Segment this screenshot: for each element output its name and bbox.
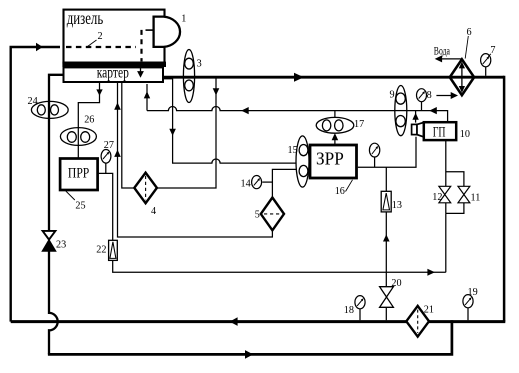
- karter (crankcase) box: [64, 65, 164, 82]
- wire bottom return line: [11, 320, 506, 323]
- label 6 with leader: [465, 27, 471, 59]
- pump/sensor 17 above ZRR: [316, 117, 354, 133]
- wire PRR out to gauge 27 junction and down: [98, 173, 113, 240]
- wire collector riser to valves bottom bar: [445, 213, 447, 272]
- gauge 18: [355, 296, 365, 309]
- svg-text:дизель: дизель: [67, 8, 104, 28]
- gauge 14: [252, 176, 262, 189]
- label 2 with leader: [88, 31, 103, 47]
- MAIN THICK LINES: [11, 47, 506, 354]
- PRR box 25: [60, 159, 98, 191]
- arrow up on GP connector stub: [412, 113, 418, 120]
- svg-text:21: 21: [424, 304, 434, 315]
- arrow down on line x216: [213, 88, 220, 95]
- THIN WIRES: [78, 66, 485, 320]
- svg-text:2: 2: [98, 31, 103, 42]
- svg-text:22: 22: [96, 244, 106, 255]
- svg-text:20: 20: [391, 278, 401, 289]
- wire diamond 5 top to ZRR lower input: [272, 169, 297, 197]
- arrow up (upper) on line x117: [114, 102, 121, 109]
- label 16 with leader: [335, 180, 353, 197]
- wire gauge 27 stem: [105, 161, 107, 173]
- gauge 8: [417, 89, 427, 102]
- arrow down inside karter (dashed oil path): [137, 67, 144, 78]
- arrow left on GP return near GP: [429, 107, 437, 114]
- arrow down on karter-PRR drain: [96, 89, 102, 95]
- wire right border down: [503, 76, 506, 322]
- wire gauge 19 stem: [467, 307, 469, 320]
- wire ZRR top to ellipse 17 stub: [334, 140, 336, 146]
- svg-text:19: 19: [468, 287, 478, 298]
- arrow into diesel left: [36, 43, 43, 52]
- wire ellipse 17 stub to return line: [334, 111, 336, 118]
- wire pump 26 to PRR box: [77, 143, 79, 158]
- svg-text:ПРР: ПРР: [68, 166, 89, 182]
- arrow right on bottom second line: [245, 350, 253, 359]
- svg-text:14: 14: [241, 179, 251, 190]
- svg-text:11: 11: [471, 193, 481, 204]
- svg-text:24: 24: [28, 96, 38, 107]
- wire ZRR output line to GP connector: [358, 137, 416, 167]
- dashed oil line 2 inside diesel: [66, 30, 154, 62]
- filter 22: [109, 240, 118, 260]
- label 25 with leader: [66, 191, 86, 212]
- pump/sensor 9 on GP return line: [395, 86, 407, 136]
- svg-text:7: 7: [490, 45, 495, 56]
- arrow up into ellipse 17: [332, 133, 339, 140]
- filter 13: [381, 191, 391, 212]
- wire top line drop at 216 to diamond 4: [122, 78, 216, 188]
- arrow right on bottom collector: [427, 269, 435, 276]
- wire GP connector up stub: [415, 111, 417, 123]
- wire gauge (unlabeled) stem: [374, 157, 376, 167]
- wire filter 13 bottom to collector: [385, 212, 387, 272]
- arrow up into karter on return riser: [144, 91, 150, 98]
- svg-text:3: 3: [197, 58, 202, 69]
- wire filter 22 down and long bottom collector: [113, 260, 446, 272]
- gauge 7: [481, 54, 491, 67]
- wire gauge 7 stem: [485, 66, 487, 76]
- cooler diamond 6: [450, 59, 474, 95]
- valve 12: [439, 186, 451, 203]
- svg-text:6: 6: [467, 27, 472, 38]
- arrow left on bottom return line: [230, 317, 238, 326]
- wire main top line karter to cooler to right border: [162, 76, 504, 79]
- arrow up (lower) on line x117: [114, 150, 121, 157]
- wire return riser into karter: [146, 84, 148, 111]
- filter diamond 4: [134, 173, 157, 204]
- svg-text:Вода: Вода: [434, 46, 450, 58]
- wire karter drain via line x117 to below diamond 5: [118, 82, 273, 237]
- pump/sensor 26 before PRR: [60, 128, 96, 146]
- ARROWS ON THIN WIRES: [96, 88, 437, 275]
- turbo unit 1 (D shape): [154, 17, 180, 47]
- pump/sensor 24 on left drain: [31, 101, 68, 118]
- svg-text:13: 13: [392, 200, 402, 211]
- svg-text:8: 8: [427, 90, 432, 101]
- wire gauge 8 stem: [421, 101, 423, 111]
- ARROWS ON MAIN LINES: [36, 43, 304, 359]
- wire karter-left drain branch down: [49, 75, 64, 231]
- svg-text:1: 1: [181, 13, 186, 24]
- valve 11: [458, 186, 470, 203]
- svg-text:ЗРР: ЗРР: [316, 149, 344, 169]
- filter diamond 5: [261, 198, 284, 231]
- svg-text:9: 9: [390, 90, 395, 101]
- svg-text:16: 16: [335, 186, 345, 197]
- diesel engine box: [62, 8, 166, 67]
- svg-text:25: 25: [75, 201, 85, 212]
- svg-text:15: 15: [288, 145, 298, 156]
- svg-text:10: 10: [460, 129, 470, 140]
- wire gauge 14 stem: [262, 181, 272, 183]
- wire gauge 18 stem: [359, 308, 361, 320]
- svg-text:27: 27: [104, 140, 114, 151]
- wire filter 13 top stub: [385, 167, 387, 191]
- gauge 27: [101, 150, 111, 164]
- ZRR box 16: [310, 145, 357, 178]
- wire valve 20 drop: [385, 272, 387, 320]
- wire karter to PRR drain (via pump 26): [78, 82, 99, 128]
- arrow left on GP return near karter: [241, 107, 249, 114]
- GP unit 10 with connector: [412, 122, 457, 140]
- svg-text:18: 18: [344, 305, 354, 316]
- svg-text:5: 5: [255, 210, 260, 221]
- arrow right on top main line: [294, 73, 304, 82]
- wire bottom second line to riser: [48, 320, 452, 354]
- svg-text:4: 4: [151, 206, 156, 217]
- water out arrow and label: [434, 46, 462, 63]
- svg-text:картер: картер: [97, 65, 129, 82]
- wire karter right drain down to ZRR input with hop: [162, 79, 298, 163]
- svg-text:26: 26: [84, 115, 94, 126]
- gauge 19: [463, 295, 473, 308]
- svg-text:23: 23: [56, 239, 66, 250]
- filter diamond 21: [406, 306, 429, 337]
- valve 23 (top hollow, bottom filled): [42, 231, 56, 251]
- arrow up into filter 13: [383, 234, 390, 241]
- svg-text:ГП: ГП: [433, 125, 446, 141]
- gauge right of ZRR: [369, 143, 379, 157]
- pump/sensor 3 on main line: [183, 50, 194, 103]
- label 7 with leader: [488, 45, 495, 57]
- arrow down on karter right drain: [169, 129, 176, 136]
- svg-text:17: 17: [354, 119, 364, 130]
- wire below valve 23 with hop over bottom line: [49, 251, 58, 355]
- wire GP top return long line with hops: [147, 106, 448, 122]
- water in arrow: [436, 92, 458, 99]
- valve 20: [380, 287, 394, 308]
- wire valves parallel frame: [446, 140, 464, 213]
- pump/sensor 15 at ZRR input: [296, 136, 309, 187]
- svg-text:12: 12: [432, 192, 442, 203]
- wire left border + top feed into diesel: [11, 47, 60, 322]
